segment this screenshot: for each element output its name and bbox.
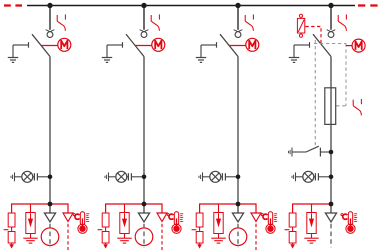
surge arrester F2 wire <box>124 204 126 213</box>
indicator lamp H3 <box>210 171 221 182</box>
ground symbol arrester feeder 2 <box>117 234 131 244</box>
wire busbar drop feeder 3 <box>237 6 239 30</box>
motor operator M2 <box>152 38 165 51</box>
switch-disconnector Q4 blade <box>313 34 331 56</box>
wire VPIS terminal to lamp feeder 2 <box>109 176 116 178</box>
earthing switch contact bar Q4 <box>294 42 310 48</box>
busbar junction node feeder 4 <box>328 3 333 8</box>
thermometer icon feeder 2 <box>172 212 183 234</box>
ring CT T1 <box>41 228 59 246</box>
trip release indicator feeder 1 <box>57 14 65 30</box>
trip release indicator feeder 3 <box>245 14 253 30</box>
fixed contact of switch Q1 <box>46 30 55 32</box>
spare cable dashed feeder 3 <box>255 224 257 250</box>
arrow terminal divider feeder 3 <box>197 243 202 249</box>
red auxiliary bus feeder 4 <box>293 204 331 213</box>
earthing switch ground stem Q3 <box>200 45 202 57</box>
temperature label feeder 2 <box>167 214 173 220</box>
wire VPIS terminal to lamp feeder 4 <box>296 176 303 178</box>
busbar junction node feeder 3 <box>235 3 240 8</box>
surge arrester F4 <box>307 213 316 234</box>
surge arrester F1 wire <box>30 204 32 213</box>
cable connector feeder 4 <box>325 213 336 222</box>
junction node cable tap feeder 1 <box>48 202 53 207</box>
arrow terminal divider feeder 2 <box>103 243 108 249</box>
junction node cable tap feeder 4 <box>329 202 334 207</box>
ring CT T3 <box>229 228 247 246</box>
resistor divider R3a <box>196 213 203 227</box>
main feeder line 4 <box>330 57 332 214</box>
VPIS capacitive terminal feeder 3 <box>199 172 203 181</box>
capacitor of VPIS feeder 4 <box>314 173 331 180</box>
wire VPIS terminal to lamp feeder 1 <box>15 176 22 178</box>
switch-disconnector Q2 blade <box>126 34 144 56</box>
motor link wire M3 <box>229 45 246 47</box>
moving contact circle of switch Q4 <box>328 32 334 38</box>
aux earthing contact fixed bar <box>320 148 331 157</box>
temperature label feeder 4 <box>341 214 347 220</box>
temperature label feeder 3 <box>261 214 267 220</box>
indicator lamp H4 <box>303 171 314 182</box>
surge arrester F1 <box>26 213 35 234</box>
fixed contact of switch Q4 <box>327 30 336 32</box>
wire busbar drop feeder 2 <box>143 6 145 30</box>
spare cable connector feeder 3 <box>251 213 261 222</box>
tap mark divider feeder 3 <box>192 229 197 231</box>
plug-in surge arrester F4a <box>297 14 304 37</box>
cable connector feeder 2 <box>138 213 149 222</box>
motor operator M4 <box>352 39 365 52</box>
moving contact circle of switch Q3 <box>235 32 241 38</box>
surge arrester F4 wire <box>311 204 313 213</box>
earthing switch ground stem Q2 <box>106 45 108 57</box>
moving contact circle of switch Q2 <box>141 32 147 38</box>
fixed contact of switch Q3 <box>234 30 243 32</box>
mech link blade to fuse striker horizontal <box>314 43 346 45</box>
capacitor of VPIS feeder 1 <box>33 173 50 180</box>
spare cable connector feeder 2 <box>157 213 167 222</box>
junction node lamp tap feeder 2 <box>142 175 147 180</box>
arrow terminal divider feeder 1 <box>9 243 14 249</box>
junction node lamp tap feeder 3 <box>236 175 241 180</box>
busbar junction node feeder 1 <box>47 3 52 8</box>
surge arrester F3 wire <box>218 204 220 213</box>
wire VPIS terminal to lamp feeder 3 <box>203 176 210 178</box>
aux earthing contact blade <box>306 146 319 152</box>
earthing switch contact bar Q2 <box>107 42 123 48</box>
ring CT T2 <box>135 228 153 246</box>
wire busbar drop feeder 1 <box>49 6 51 30</box>
ground symbol feeder 3 <box>196 58 206 63</box>
junction node cable tap feeder 3 <box>236 202 241 207</box>
outgoing cable feeder 3 <box>237 224 239 248</box>
main busbar <box>27 5 355 7</box>
indicator lamp H1 <box>22 171 33 182</box>
fuse F4 <box>325 88 336 125</box>
capacitor of VPIS feeder 2 <box>127 173 144 180</box>
earthing switch contact bar Q3 <box>201 42 217 48</box>
outgoing cable feeder 1 <box>49 224 51 248</box>
resistor divider R3b <box>196 227 203 243</box>
surge arrester F2 <box>120 213 129 234</box>
junction node lamp tap feeder 1 <box>48 175 53 180</box>
resistor divider R2a <box>102 213 109 227</box>
moving contact circle of switch Q1 <box>47 32 53 38</box>
thermometer icon feeder 4 <box>346 212 357 234</box>
thermometer icon feeder 3 <box>266 212 277 234</box>
fuse striker trip contact <box>353 99 361 115</box>
ground symbol arrester feeder 3 <box>211 234 225 244</box>
tap mark divider feeder 4 <box>285 229 290 231</box>
motor operator M3 <box>246 38 259 51</box>
mech link fuse striker <box>336 105 346 107</box>
indicator lamp H2 <box>116 171 127 182</box>
switch-disconnector Q3 blade <box>220 34 238 56</box>
busbar junction node feeder 2 <box>141 3 146 8</box>
earthing switch ground stem Q1 <box>12 45 14 57</box>
outgoing cable feeder 2 <box>143 224 145 248</box>
resistor divider R4b <box>289 227 296 243</box>
earthing switch ground stem Q4 <box>293 45 295 57</box>
mech link vertical right <box>345 44 347 106</box>
spare cable dashed feeder 2 <box>161 224 163 250</box>
motor operator M1 <box>58 38 71 51</box>
tap mark divider feeder 1 <box>4 229 9 231</box>
VPIS capacitive terminal feeder 1 <box>11 172 15 181</box>
motor link wire M1 <box>41 45 58 47</box>
busbar incoming dashed left <box>4 4 22 6</box>
junction node cable tap feeder 2 <box>142 202 147 207</box>
earthing switch contact bar Q1 <box>13 42 29 48</box>
main feeder line 2 <box>143 57 145 214</box>
red dashed link arrester to mechanism <box>305 27 321 44</box>
tap mark divider feeder 2 <box>98 229 103 231</box>
thermometer icon feeder 1 <box>78 212 89 234</box>
temperature label feeder 1 <box>73 214 79 220</box>
red auxiliary bus feeder 2 <box>106 204 162 213</box>
ground symbol feeder 2 <box>102 58 112 63</box>
main feeder line 1 <box>49 57 51 214</box>
arrow terminal divider feeder 4 <box>290 243 295 249</box>
cable connector feeder 3 <box>232 213 243 222</box>
surge arrester F3 <box>214 213 223 234</box>
spare cable dashed feeder 1 <box>67 224 69 250</box>
busbar outgoing dashed right <box>358 4 378 6</box>
capacitor of VPIS feeder 3 <box>221 173 238 180</box>
spare cable connector feeder 1 <box>63 213 73 222</box>
cable connector feeder 1 <box>44 213 55 222</box>
trip release indicator feeder 4 <box>338 14 346 30</box>
red auxiliary bus feeder 1 <box>12 204 68 213</box>
motor link wire M4 <box>346 45 352 47</box>
motor link wire M2 <box>135 45 152 47</box>
ground symbol feeder 1 <box>8 58 18 63</box>
resistor divider R1a <box>8 213 15 227</box>
resistor divider R2b <box>102 227 109 243</box>
main feeder line 3 <box>237 57 239 214</box>
junction node aux contact <box>329 150 334 155</box>
trip release indicator feeder 2 <box>151 14 159 30</box>
VPIS capacitive terminal feeder 4 <box>292 172 296 181</box>
outgoing cable feeder 4 <box>330 224 332 248</box>
ground symbol arrester feeder 4 <box>304 234 318 244</box>
resistor divider R4a <box>289 213 296 227</box>
VPIS capacitive terminal feeder 2 <box>105 172 109 181</box>
mech link vertical left <box>314 40 316 146</box>
red auxiliary bus feeder 3 <box>200 204 256 213</box>
switch-disconnector Q1 blade <box>32 34 50 56</box>
fixed contact of switch Q2 <box>140 30 149 32</box>
aux earthing contact terminal <box>289 148 293 157</box>
ground symbol feeder 4 <box>289 58 299 63</box>
ground symbol arrester feeder 1 <box>23 234 37 244</box>
junction node lamp tap feeder 4 <box>329 175 334 180</box>
aux earthing contact wire left <box>292 151 306 153</box>
wire busbar drop feeder 4 <box>330 6 332 30</box>
resistor divider R1b <box>8 227 15 243</box>
